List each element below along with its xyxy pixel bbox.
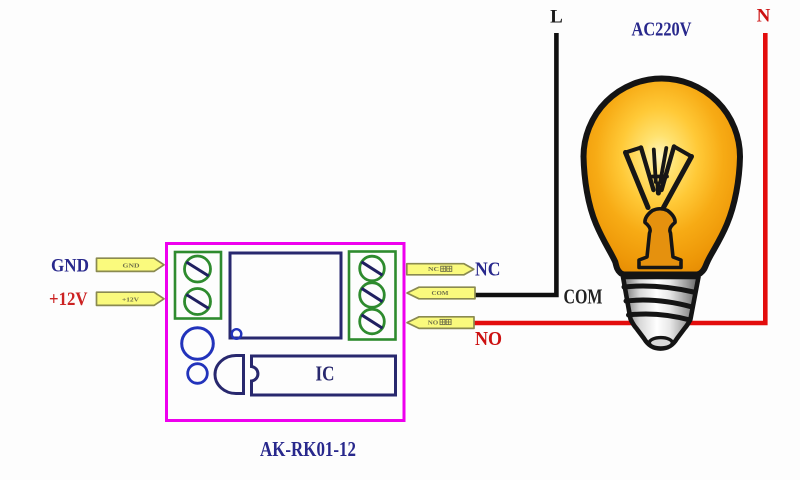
svg-text:NO: NO xyxy=(475,329,502,350)
svg-text:COM: COM xyxy=(564,285,603,309)
svg-text:IC: IC xyxy=(316,362,335,386)
svg-text:AC220V: AC220V xyxy=(632,19,692,41)
svg-text:+12V: +12V xyxy=(122,297,140,303)
svg-text:N: N xyxy=(757,6,771,27)
svg-text:GND: GND xyxy=(51,257,89,277)
svg-text:NC: NC xyxy=(475,260,501,281)
svg-text:COM: COM xyxy=(432,291,450,297)
svg-text:L: L xyxy=(550,7,563,28)
svg-text:GND: GND xyxy=(123,263,140,269)
svg-text:AK-RK01-12: AK-RK01-12 xyxy=(260,437,356,461)
svg-text:+12V: +12V xyxy=(49,289,88,310)
svg-text:NC: NC xyxy=(428,267,439,273)
svg-text:NO: NO xyxy=(428,320,439,326)
